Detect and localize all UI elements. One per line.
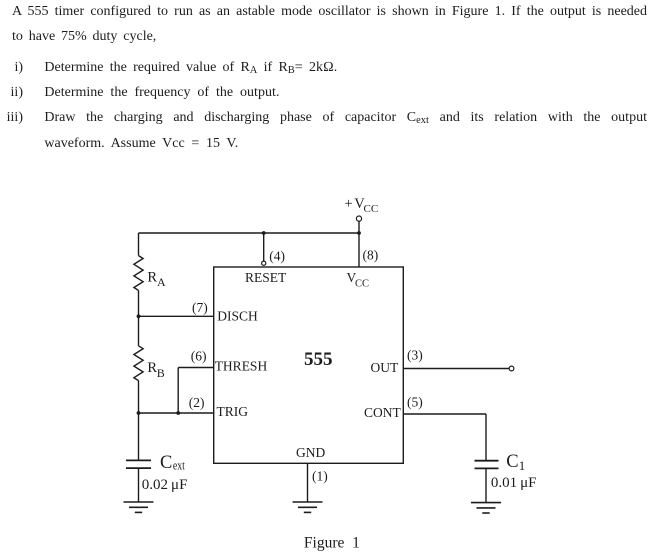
svg-text:+: + bbox=[345, 196, 353, 212]
junction node on rail at VCC stub bbox=[357, 231, 361, 235]
wire GND pin 1 bbox=[307, 463, 309, 502]
svg-text:(5): (5) bbox=[407, 395, 423, 410]
wire CONT down to C1 bbox=[485, 414, 487, 460]
svg-text:B: B bbox=[157, 366, 165, 380]
svg-text:C: C bbox=[160, 453, 172, 473]
svg-text:R: R bbox=[147, 270, 157, 286]
list item i bbox=[44, 58, 337, 78]
terminal +Vcc open circle bbox=[356, 216, 361, 221]
paragraph line 1 bbox=[12, 2, 647, 22]
capacitor C1 plates bbox=[475, 461, 499, 469]
svg-text:C: C bbox=[506, 452, 518, 472]
svg-text:0.02 μF: 0.02 μF bbox=[142, 477, 188, 493]
resistor RB bbox=[134, 346, 143, 381]
wire OUT pin 3 bbox=[403, 368, 509, 370]
ground for GND pin bbox=[293, 502, 323, 512]
svg-text:(1): (1) bbox=[312, 469, 328, 484]
junction node DISCH at RA bottom bbox=[137, 314, 141, 318]
svg-text:ext: ext bbox=[173, 458, 185, 472]
IC U1 555 timer body bbox=[214, 267, 404, 463]
svg-text:(2): (2) bbox=[189, 395, 205, 410]
wire TRIG pin 2 bbox=[139, 412, 214, 414]
svg-text:0.01 μF: 0.01 μF bbox=[491, 475, 537, 491]
svg-text:OUT: OUT bbox=[371, 360, 399, 375]
paragraph line 2 bbox=[12, 27, 156, 47]
wire THRESH pin 6 bbox=[178, 367, 214, 369]
terminal output open circle bbox=[509, 366, 514, 371]
svg-text:A: A bbox=[157, 275, 166, 289]
list label iii) bbox=[0, 108, 23, 128]
wire RA to DISCH node bbox=[138, 290, 140, 316]
wire TRIG node down to Cext bbox=[138, 413, 140, 460]
svg-text:(8): (8) bbox=[363, 247, 379, 262]
junction node on rail at RESET stub bbox=[262, 231, 266, 235]
list item iii line 1 bbox=[44, 108, 647, 128]
svg-text:RESET: RESET bbox=[245, 270, 287, 285]
terminal RESET pin open circle bbox=[262, 261, 266, 265]
svg-text:TRIG: TRIG bbox=[217, 404, 249, 419]
list item iii line 2 bbox=[44, 134, 238, 154]
svg-text:(3): (3) bbox=[407, 348, 423, 363]
svg-text:(4): (4) bbox=[269, 248, 285, 263]
svg-text:THRESH: THRESH bbox=[215, 358, 268, 373]
wire RESET stub vertical bbox=[263, 233, 265, 261]
ground for C1 bbox=[471, 503, 501, 513]
list item ii bbox=[44, 83, 279, 103]
wire DISCH node to RB bbox=[138, 316, 140, 346]
junction node TRIG at jog bbox=[176, 411, 180, 415]
list label i) bbox=[0, 58, 23, 78]
svg-text:(6): (6) bbox=[191, 349, 207, 364]
svg-text:Figure 1: Figure 1 bbox=[304, 535, 360, 552]
wire left rail above RA bbox=[138, 233, 140, 256]
wire CONT pin 5 horizontal bbox=[403, 413, 486, 415]
junction node TRIG at RB bottom bbox=[137, 411, 141, 415]
resistor RA bbox=[134, 256, 143, 291]
wire THRESH to TRIG jog bbox=[177, 368, 179, 414]
wire top supply rail bbox=[139, 232, 360, 234]
wire C1 to ground bbox=[485, 468, 487, 502]
svg-text:CC: CC bbox=[355, 279, 369, 290]
svg-text:1: 1 bbox=[519, 458, 526, 473]
svg-text:GND: GND bbox=[296, 445, 325, 460]
wire VCC stub vertical bbox=[358, 221, 360, 267]
svg-text:CC: CC bbox=[364, 203, 379, 215]
svg-text:(7): (7) bbox=[192, 300, 208, 315]
capacitor Cext plates bbox=[126, 460, 151, 468]
ground for Cext bbox=[124, 502, 154, 512]
list label ii) bbox=[0, 83, 23, 103]
wire DISCH pin 7 bbox=[139, 315, 214, 317]
wire RB to TRIG node bbox=[138, 381, 140, 413]
svg-text:CONT: CONT bbox=[364, 405, 402, 420]
wire Cext to ground bbox=[138, 468, 140, 502]
svg-text:555: 555 bbox=[304, 349, 333, 370]
svg-text:DISCH: DISCH bbox=[217, 309, 258, 324]
